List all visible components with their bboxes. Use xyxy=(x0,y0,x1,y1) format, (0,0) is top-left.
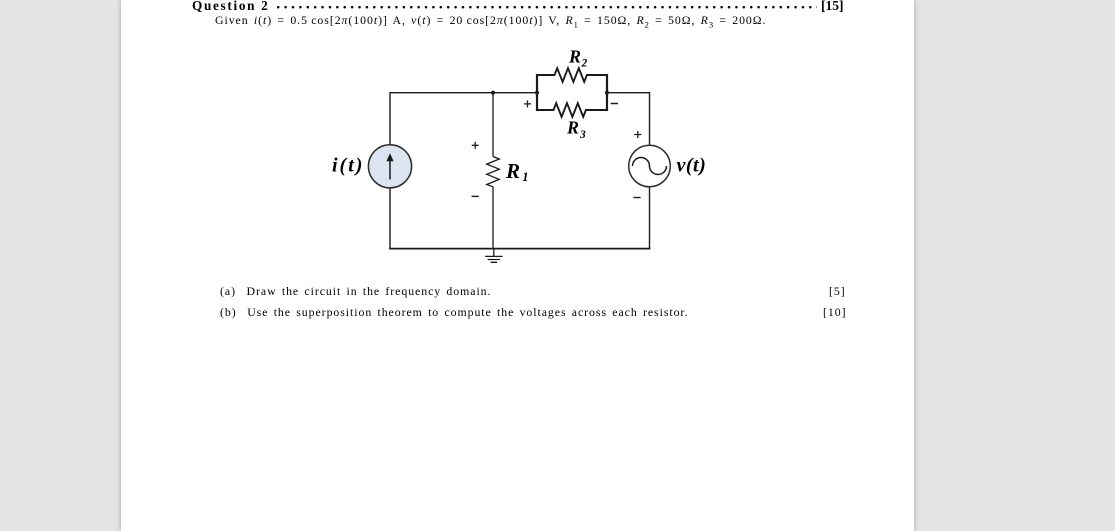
given line xyxy=(215,13,766,28)
wire: left branch vertical (top) xyxy=(389,92,391,145)
svg-text:3: 3 xyxy=(579,129,586,141)
item (a) xyxy=(220,284,491,299)
wire: parallel bracket right vertical xyxy=(606,74,608,111)
wire: parallel bracket left vertical xyxy=(536,74,538,111)
svg-text:1: 1 xyxy=(522,170,528,184)
current source arrow xyxy=(389,160,391,180)
svg-text:R: R xyxy=(505,159,520,183)
polarity + for parallel pair xyxy=(524,100,531,107)
node: junction at R1 top xyxy=(491,91,495,95)
wire: bottom horizontal xyxy=(389,248,650,250)
svg-text:2: 2 xyxy=(581,58,588,70)
resistor R3 (bottom branch zigzag) xyxy=(537,103,607,117)
wire: right branch vertical (top) xyxy=(649,92,651,146)
wire: top horizontal right xyxy=(607,92,650,94)
ground stem xyxy=(493,249,495,257)
node: right terminal of parallel pair xyxy=(605,91,609,95)
svg-text:R: R xyxy=(568,47,581,67)
resistor R1 (vertical zigzag) xyxy=(487,157,500,187)
voltage source sine wave xyxy=(633,158,667,175)
polarity - for R1 xyxy=(472,195,479,197)
heading line: Question 2 ...... [15] xyxy=(192,0,269,14)
wire: left branch vertical (bottom) xyxy=(389,188,391,249)
wire: R1 top lead xyxy=(492,92,494,157)
svg-text:R: R xyxy=(566,118,579,138)
item (b) xyxy=(220,305,689,320)
wire: right branch vertical (bottom) xyxy=(649,187,651,249)
wire: top horizontal left xyxy=(390,92,537,94)
polarity - for v(t) xyxy=(633,197,640,199)
page xyxy=(121,0,914,531)
svg-text:i(t): i(t) xyxy=(332,154,364,176)
voltage source v(t) circle xyxy=(629,145,671,187)
svg-text:v(t): v(t) xyxy=(677,154,707,176)
resistor R2 (top branch zigzag) xyxy=(537,68,607,82)
node: left terminal of parallel pair xyxy=(535,91,539,95)
polarity + for v(t) xyxy=(634,131,641,138)
current source i(t) circle xyxy=(368,145,411,188)
ground bars xyxy=(485,256,503,262)
polarity + for R1 xyxy=(472,142,479,149)
polarity - for parallel pair xyxy=(611,103,618,105)
wire: R1 bottom lead xyxy=(492,187,494,249)
